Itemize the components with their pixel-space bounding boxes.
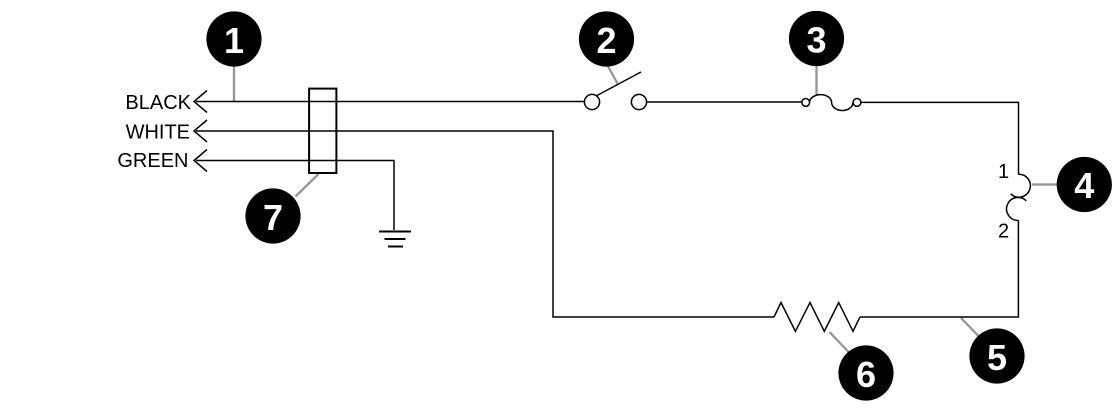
- svg-text:5: 5: [987, 337, 1007, 378]
- svg-text:3: 3: [806, 20, 826, 61]
- svg-text:2: 2: [998, 221, 1009, 243]
- svg-text:2: 2: [596, 20, 616, 61]
- svg-text:1: 1: [224, 20, 244, 61]
- svg-text:BLACK: BLACK: [125, 92, 191, 114]
- svg-text:4: 4: [1074, 165, 1094, 206]
- svg-text:GREEN: GREEN: [117, 150, 188, 172]
- svg-text:1: 1: [998, 161, 1009, 183]
- svg-text:7: 7: [263, 197, 283, 238]
- svg-text:WHITE: WHITE: [126, 122, 190, 144]
- svg-text:6: 6: [856, 354, 876, 395]
